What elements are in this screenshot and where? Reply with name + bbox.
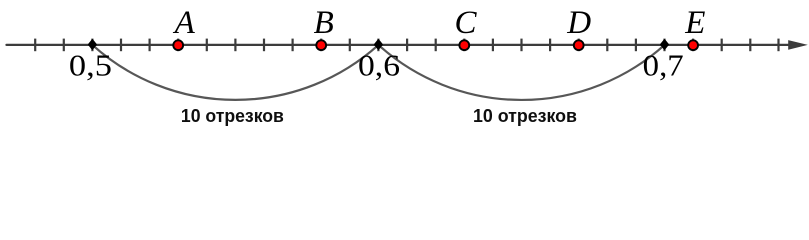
- svg-text:E: E: [684, 5, 705, 41]
- brace: arc "10 отрезков" from 0,5 to 0,6: [92, 45, 378, 100]
- node: red point E: [688, 40, 698, 50]
- label: value 0,6: [358, 48, 400, 82]
- label: point D: [566, 5, 591, 41]
- wire: number line axis: [7, 44, 800, 46]
- svg-text:10 отрезков: 10 отрезков: [473, 106, 577, 126]
- node: red point A: [173, 40, 183, 50]
- node: red point C: [459, 40, 469, 50]
- node: diamond point at 0,6: [375, 40, 383, 50]
- node: axis arrowhead: [788, 40, 808, 50]
- node: diamond point at 0,7: [661, 40, 669, 50]
- node: red point D: [574, 40, 584, 50]
- svg-text:10 отрезков: 10 отрезков: [181, 106, 284, 126]
- svg-text:0,7: 0,7: [643, 48, 684, 82]
- svg-text:D: D: [566, 5, 591, 41]
- svg-text:0,5: 0,5: [69, 48, 112, 82]
- label: value 0,7: [643, 48, 684, 82]
- node: red point B: [316, 40, 326, 50]
- label: 10 отрезков (right): [473, 106, 577, 126]
- svg-text:C: C: [454, 5, 477, 41]
- label: point E: [684, 5, 705, 41]
- brace: arc "10 отрезков" from 0,6 to 0,7: [378, 45, 664, 100]
- label: point B: [314, 5, 334, 41]
- node: diamond point at 0,5: [89, 40, 97, 50]
- label: point C: [454, 5, 477, 41]
- label: value 0,5: [69, 48, 112, 82]
- wire: tick marks: [35, 39, 778, 52]
- svg-text:B: B: [314, 5, 334, 41]
- svg-text:A: A: [173, 5, 196, 41]
- label: 10 отрезков (left): [181, 106, 284, 126]
- svg-text:0,6: 0,6: [358, 48, 400, 82]
- label: point A: [173, 5, 196, 41]
